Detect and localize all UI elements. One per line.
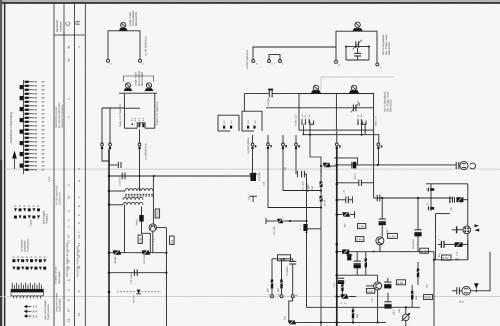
page top edge shading xyxy=(0,0,500,1)
vertical rail x306 xyxy=(306,174,308,307)
page left border line xyxy=(4,2,6,326)
wire left vert a xyxy=(101,108,103,143)
resistor R12b vertical xyxy=(340,284,345,296)
track selector block pins top xyxy=(12,283,41,290)
svg-text:Tuner 2-3 / Track 3-2: Tuner 2-3 / Track 3-2 xyxy=(119,103,122,127)
capacitor C19 xyxy=(456,162,460,169)
boxed label 3mA xyxy=(424,295,433,300)
svg-text:Radio: Radio xyxy=(30,219,33,226)
cap cluster labels xyxy=(302,181,310,192)
wire D1 to emitter rail xyxy=(142,222,151,253)
resistor R7 label xyxy=(308,185,314,190)
svg-text:0.6: 0.6 xyxy=(171,239,174,243)
svg-text:R10 15k: R10 15k xyxy=(143,254,146,264)
contact pin j1 xyxy=(429,188,435,192)
terminal v xyxy=(280,295,283,298)
playback switch symbols row 2 xyxy=(14,215,40,218)
capacitor C16b electrolytic xyxy=(346,254,352,261)
capacitor C20 xyxy=(352,162,356,169)
boxed label 7S42 xyxy=(155,209,159,218)
resistor R17 xyxy=(337,294,356,298)
coil L4 trimmer core xyxy=(311,85,321,93)
capacitor C27 electrolytic xyxy=(438,238,448,248)
svg-text:988+4238B: 988+4238B xyxy=(141,72,144,86)
svg-text:1-2: 1-2 xyxy=(32,305,37,309)
switch S1 contact pins xyxy=(132,123,145,127)
resistor R16 vertical xyxy=(416,262,421,285)
jack BU2 arrows xyxy=(474,224,479,231)
dot row221 xyxy=(289,220,308,222)
plug pin a xyxy=(101,143,104,149)
svg-text:11: 11 xyxy=(77,235,81,238)
resistor R7 vertical xyxy=(319,181,323,187)
dot C23 top xyxy=(417,197,419,199)
wire S1 center drop xyxy=(139,129,141,142)
main bus left xyxy=(108,149,110,326)
wire left vert b xyxy=(109,108,111,143)
svg-text:10uF: 10uF xyxy=(393,309,396,315)
resistor R15 wedge xyxy=(342,249,349,254)
wire bus to TR1 tert xyxy=(109,204,123,206)
resistor R17 label xyxy=(340,302,346,305)
plug pin c xyxy=(138,143,141,149)
speaker jack BU3 xyxy=(462,287,471,296)
coil L5 trimmer core xyxy=(349,85,359,93)
capacitor C15 xyxy=(134,269,137,276)
CIRCUIT2: top middle xyxy=(218,22,394,326)
connector strip pin rows xyxy=(25,81,45,171)
wire row 207.5 xyxy=(268,207,321,209)
stub row 165 xyxy=(109,162,121,168)
transistor T2 xyxy=(374,282,382,290)
wire S1 left drop xyxy=(102,107,124,109)
capacitor C8 xyxy=(377,195,380,202)
svg-text:R7 5k: R7 5k xyxy=(323,199,326,206)
terminal w xyxy=(291,295,294,298)
switch S1 box xyxy=(124,93,154,128)
LEFT MARGIN xyxy=(23,80,25,174)
wire TR1 right drop / T1 base xyxy=(152,176,154,224)
svg-text:Tape Switch: Tape Switch xyxy=(58,270,61,284)
resistor R20 vertical xyxy=(351,307,356,322)
potentiometer P1 xyxy=(402,307,411,326)
switch S4 contact labels xyxy=(357,114,363,118)
T-point below C14 xyxy=(249,196,257,202)
svg-text:0,47: 0,47 xyxy=(311,185,314,190)
capacitor C23 electrolytic xyxy=(414,198,421,252)
svg-text:C17: C17 xyxy=(333,282,336,287)
capacitor C25 and resistor series xyxy=(450,197,468,204)
junction dot row176 xyxy=(139,175,156,177)
dot right riser xyxy=(433,259,435,261)
zener dashed rail xyxy=(117,291,161,293)
svg-text:2-3: 2-3 xyxy=(32,314,37,318)
svg-text:2u2/25V: 2u2/25V xyxy=(258,172,261,181)
wire row 176 xyxy=(109,175,250,177)
table vertical line 4 xyxy=(84,4,86,326)
svg-text:ca.387(1400)kHz: ca.387(1400)kHz xyxy=(246,49,249,69)
extra annotation labels mid xyxy=(247,166,287,200)
svg-text:25uF/40V: 25uF/40V xyxy=(412,239,415,249)
svg-text:Pushbuttons: Pushbuttons xyxy=(27,238,30,252)
svg-text:MICROPH. RADIO RECORD: MICROPH. RADIO RECORD xyxy=(77,246,80,277)
boxed label 0.95 xyxy=(366,288,374,293)
svg-text:3-4: 3-4 xyxy=(32,310,37,314)
unit3 right label xyxy=(383,91,392,112)
terminal u xyxy=(271,295,274,298)
table header bottom line xyxy=(54,34,85,36)
terminal a1 xyxy=(107,59,113,65)
resistor R16a vertical xyxy=(364,252,369,276)
svg-text:Aufnahme / Recording: Aufnahme / Recording xyxy=(9,112,13,143)
wire T3 emitter xyxy=(379,245,381,252)
resistor R18 vertical xyxy=(410,285,415,307)
resistor R8 vertical xyxy=(319,196,323,202)
svg-text:C: C xyxy=(65,21,72,26)
legend arrow row 1 xyxy=(24,305,27,309)
wire rail 275.2 xyxy=(337,274,378,276)
coil L2 trimmer core xyxy=(124,83,133,91)
switch S3 contact labels xyxy=(301,114,311,118)
svg-text:BU3: BU3 xyxy=(459,300,464,303)
legend arrow row 3 xyxy=(24,314,27,318)
svg-text:7S42: 7S42 xyxy=(156,210,160,217)
svg-text:0.6V: 0.6V xyxy=(356,238,362,242)
track selector block pins bottom xyxy=(13,296,40,299)
boxed label L40 vertical xyxy=(138,235,142,243)
wire bus to TR1 xyxy=(109,190,125,192)
plug pin i xyxy=(377,143,380,165)
capacitor C9 electrolytic xyxy=(379,219,386,237)
switch S1 pin labels xyxy=(131,117,145,121)
capacitor C24 electrolytic xyxy=(384,293,391,309)
coil L1 trimmer core xyxy=(119,22,128,30)
speaker arrow xyxy=(474,283,479,292)
coil L6 trimmer core xyxy=(352,22,362,31)
switch S2 labels xyxy=(247,120,257,124)
symbol group B tick labels xyxy=(13,257,46,258)
wire right edge drop xyxy=(471,252,491,291)
faint wire y77 xyxy=(321,77,394,90)
svg-text:M: M xyxy=(295,294,297,297)
plug pin f xyxy=(282,135,285,191)
jack2 frame xyxy=(436,214,450,260)
resistor R11 xyxy=(277,219,290,223)
svg-text:16: 16 xyxy=(77,312,81,316)
boxed label -1.4V xyxy=(387,233,397,238)
page left edge shading xyxy=(0,0,2,326)
wire row 198 xyxy=(374,197,452,199)
wire jack2 frame drop xyxy=(467,240,469,260)
svg-text:4,5,6: 4,5,6 xyxy=(48,176,51,182)
wire row 252.7 xyxy=(109,252,166,254)
svg-text:C7 100n: C7 100n xyxy=(302,181,305,190)
wire osc feed xyxy=(253,47,336,59)
dot row228 xyxy=(306,232,308,234)
svg-text:Track Switch: Track Switch xyxy=(59,298,62,312)
recording arrow xyxy=(12,151,17,159)
svg-text:Contacts: Contacts xyxy=(59,21,62,32)
svg-text:17: 17 xyxy=(77,242,81,246)
svg-text:-1.4V: -1.4V xyxy=(388,235,395,239)
wire bottom rail xyxy=(337,321,386,323)
resistor R13b vertical xyxy=(279,259,284,295)
svg-text:Tuner 1-4 / Track 1-4: Tuner 1-4 / Track 1-4 xyxy=(156,101,159,125)
boxed label 1.05 xyxy=(396,280,405,285)
wire pin c stem xyxy=(139,149,141,191)
svg-text:Tuner 10,7: Tuner 10,7 xyxy=(294,114,297,126)
table vertical line 3 xyxy=(74,4,76,326)
jack socket BU1 xyxy=(460,161,468,169)
svg-text:RECORD PLAYBACK: RECORD PLAYBACK xyxy=(61,104,64,128)
terminal letters xyxy=(268,293,297,296)
capacitor C17 xyxy=(338,278,344,284)
unit3 top rail xyxy=(244,93,374,95)
svg-text:18: 18 xyxy=(67,318,71,322)
osc inner rail dots xyxy=(345,46,370,48)
wire pin a stem xyxy=(102,149,109,161)
page top border line xyxy=(0,2,500,4)
capacitor C3 xyxy=(268,89,273,98)
capacitor C10 electrolytic corner xyxy=(300,224,308,232)
svg-text:C3 3p9: C3 3p9 xyxy=(267,98,270,106)
svg-text:Playback: Playback xyxy=(46,213,49,224)
wire bus stub 157.9 xyxy=(334,158,358,165)
tuner unit bottom rail xyxy=(302,135,379,143)
svg-text:C15 100n: C15 100n xyxy=(130,273,133,284)
bus right vertical x166 xyxy=(165,228,167,326)
svg-text:1.9V: 1.9V xyxy=(358,225,364,229)
connector strip key blocks xyxy=(20,85,24,168)
svg-text:3mA: 3mA xyxy=(425,296,431,300)
switch S1b box xyxy=(218,115,239,131)
junction dots unit bottom xyxy=(309,134,363,136)
pin number labels xyxy=(255,145,383,148)
wire T1 collector xyxy=(157,227,167,229)
wire TR1 sec right drop xyxy=(141,207,143,216)
svg-text:C: C xyxy=(67,279,71,281)
dot bottom rail xyxy=(320,321,379,323)
boxed label L41 xyxy=(278,255,291,261)
capacitor C16 xyxy=(289,259,296,295)
capacitor C28 xyxy=(452,287,462,294)
table column C entries xyxy=(67,45,82,312)
osc inner rail xyxy=(346,46,369,48)
wire row 272.7 xyxy=(109,272,166,274)
vertical rail x321 xyxy=(310,135,321,326)
capacitor C24b electrolytic upper xyxy=(384,278,391,288)
table vertical line 2 xyxy=(63,4,65,326)
svg-text:16: 16 xyxy=(67,308,71,312)
svg-text:984+4222B: 984+4222B xyxy=(388,42,391,55)
unit3 right side drop xyxy=(373,130,375,198)
svg-text:T 2: T 2 xyxy=(371,298,374,302)
dot row307 xyxy=(405,306,407,308)
table vertical line 1 xyxy=(53,4,55,326)
tuner unit midline xyxy=(266,107,374,109)
x166 junction dots xyxy=(165,252,167,274)
svg-text:1.05: 1.05 xyxy=(397,281,403,285)
bus junction dots xyxy=(108,175,111,294)
wire rect bottom xyxy=(434,259,468,261)
wire T2 collector xyxy=(377,275,379,282)
resistor R19 xyxy=(288,320,296,324)
capacitor C18 electrolytic xyxy=(354,252,361,276)
coil L3 trimmer core xyxy=(145,83,154,91)
svg-text:C13 4n7: C13 4n7 xyxy=(119,176,122,186)
cap cluster row174 xyxy=(297,171,306,178)
dot row198 xyxy=(381,197,383,199)
bus right junction dots xyxy=(336,164,379,324)
cluster rail top xyxy=(272,259,293,261)
plug pin d xyxy=(251,135,254,173)
switch S1 midline xyxy=(124,107,140,109)
trimmer capacitor C5 xyxy=(351,102,360,113)
bracket x-s xyxy=(269,55,280,60)
svg-text:4a: 4a xyxy=(67,45,71,49)
svg-text:Band 1-4: Band 1-4 xyxy=(375,116,378,126)
svg-text:Track Selector: Track Selector xyxy=(47,304,50,320)
table column R entries xyxy=(67,168,82,322)
plug pin b xyxy=(109,143,112,149)
jack BU1 ring xyxy=(469,163,475,169)
svg-text:9B 37,5: 9B 37,5 xyxy=(132,294,135,303)
fold line upper xyxy=(5,168,500,171)
switch S4 contacts xyxy=(357,119,366,125)
wire bus to jack1 xyxy=(337,164,456,166)
resistor R14 xyxy=(337,211,355,218)
plug pin g xyxy=(295,135,298,174)
oscillator block outline xyxy=(336,31,377,62)
terminal a3 xyxy=(335,60,341,66)
main bus right xyxy=(336,149,338,326)
coil L2-L3 coupling bracket xyxy=(124,76,154,82)
svg-text:R6 7k5: R6 7k5 xyxy=(320,169,323,177)
wire T2 emitter xyxy=(377,290,379,323)
wire TR1 left drop xyxy=(124,205,126,253)
transistor T3 xyxy=(376,237,384,245)
transformer TR1 core xyxy=(125,194,153,196)
tuner unit drop wires xyxy=(304,125,366,135)
wire T3 base drop xyxy=(381,198,383,219)
svg-text:40/10: 40/10 xyxy=(354,173,357,179)
plug pin h xyxy=(335,131,338,149)
wire row 183.8 xyxy=(426,183,468,185)
svg-text:L40: L40 xyxy=(138,237,142,242)
svg-text:10,2B 24,2F: 10,2B 24,2F xyxy=(59,191,62,205)
terminal b1 xyxy=(139,59,145,65)
svg-text:1 M: 1 M xyxy=(343,190,346,194)
capacitor C14 electrolytic xyxy=(249,173,257,181)
svg-text:0.4V: 0.4V xyxy=(421,249,427,253)
zener diode Z1 xyxy=(136,290,141,294)
resistor R21 xyxy=(448,242,468,247)
diode D1 xyxy=(139,215,143,222)
resistor R9 xyxy=(113,250,122,254)
switch S1b labels xyxy=(223,120,233,124)
svg-text:C14: C14 xyxy=(262,181,265,186)
wire drop to S2 xyxy=(243,94,245,112)
wire bottom left rail xyxy=(289,321,337,323)
boxed label 1.9V b xyxy=(357,224,365,229)
osc inner sides xyxy=(346,47,369,60)
track selector block outline xyxy=(11,289,43,296)
resistor R13 vertical xyxy=(270,259,275,295)
svg-text:5k6: 5k6 xyxy=(356,313,359,318)
transformer TR1 secondary xyxy=(123,197,143,199)
capacitor C21 xyxy=(337,180,374,186)
wire row 190.5 xyxy=(283,190,321,192)
switch S3 contacts xyxy=(301,119,313,125)
wire L1 top xyxy=(108,31,140,59)
resistor R10 xyxy=(142,250,151,254)
svg-text:R9 56k: R9 56k xyxy=(114,256,117,264)
contact pin labels xyxy=(426,188,429,206)
capacitor C22 xyxy=(337,196,353,203)
transformer TR1 tertiary xyxy=(123,202,143,204)
legend arrow row 2 xyxy=(24,310,27,314)
svg-text:100n/40V: 100n/40V xyxy=(286,266,289,276)
wire T2 base xyxy=(366,285,374,287)
terminal x xyxy=(268,60,274,66)
track selector block bar xyxy=(11,289,43,292)
coil L2 label xyxy=(135,71,144,86)
terminal s xyxy=(279,60,285,66)
terminal a2 xyxy=(252,60,258,66)
wire right riser xyxy=(433,252,435,326)
fold line lower xyxy=(0,295,500,298)
svg-text:4b: 4b xyxy=(67,58,71,62)
wire x431 xyxy=(430,184,432,211)
table column 1 notes xyxy=(55,185,62,312)
symbol group A tick labels xyxy=(14,206,39,207)
wire unit2 top rail xyxy=(119,92,157,94)
boxed label 0.6V b xyxy=(355,237,363,242)
coil L1 label xyxy=(129,11,138,26)
svg-text:984+4223B: 984+4223B xyxy=(389,99,392,112)
CIRCUIT3: right side xyxy=(266,149,490,326)
osc block label xyxy=(382,34,391,55)
transistor T1 xyxy=(149,224,156,231)
plug pin e xyxy=(267,135,270,208)
jack2 labels xyxy=(438,250,459,257)
test point row 221 xyxy=(266,218,277,224)
tuner unit box xyxy=(299,94,374,131)
svg-text:MIKROPH. RADIO AUFNAHME: MIKROPH. RADIO AUFNAHME xyxy=(66,243,69,277)
wire row 228.8 xyxy=(308,228,321,230)
svg-text:ca.29V/100kHz: ca.29V/100kHz xyxy=(247,137,250,154)
svg-text:TH400: TH400 xyxy=(136,218,139,226)
capacitor C2 xyxy=(354,48,361,60)
playback switch symbols row 1 xyxy=(14,208,40,211)
capacitor C13 xyxy=(122,173,125,180)
dot row190 xyxy=(320,165,322,209)
resistor R6 xyxy=(321,163,337,167)
pushbutton symbols row 2 xyxy=(12,267,46,270)
wire rail 251.7 xyxy=(337,251,434,253)
svg-text:R19: R19 xyxy=(284,315,287,320)
trimmer capacitor C1 xyxy=(353,40,362,50)
wire T1 emitter xyxy=(152,231,154,252)
jack2 right frame xyxy=(467,184,469,260)
terminal o xyxy=(376,63,382,69)
connector strip spine xyxy=(23,80,25,174)
svg-text:0.95: 0.95 xyxy=(367,289,373,293)
wire row221 extend xyxy=(290,220,307,222)
boxed label 9.4V xyxy=(442,255,451,260)
svg-text:T 3: T 3 xyxy=(372,249,375,253)
wire terminal w drop xyxy=(289,298,293,323)
